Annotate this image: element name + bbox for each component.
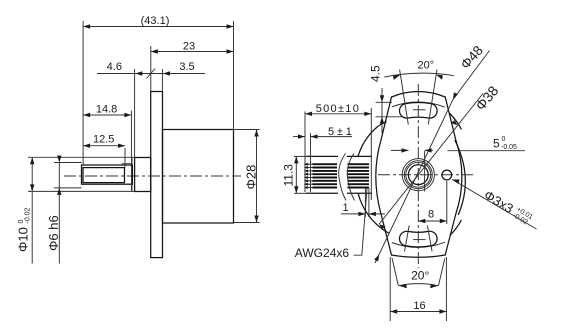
svg-text:-0.02: -0.02 — [25, 207, 32, 223]
phi28 motor can arc (right) — [455, 140, 466, 215]
concentric circles: boss, bearing rings, shaft — [402, 159, 434, 191]
svg-text:8: 8 — [428, 208, 434, 220]
phi3x3 leader — [452, 180, 536, 230]
dim (43.1) — [82, 21, 84, 165]
dim 500+-10 — [304, 112, 306, 193]
phi38 diameter leader — [379, 94, 483, 225]
svg-text:5: 5 — [493, 137, 500, 151]
centerlines — [417, 84, 419, 268]
dim 12.5 — [124, 148, 126, 167]
shaft (phi6) — [82, 165, 133, 184]
boss (phi10) — [135, 158, 151, 192]
svg-text:Φ28: Φ28 — [244, 165, 259, 190]
dim phi6 h6 — [54, 162, 82, 164]
dim 5+-1 — [310, 133, 312, 192]
flange silhouette — [376, 92, 462, 258]
svg-text:-0.05: -0.05 — [501, 144, 517, 151]
svg-text:500±10: 500±10 — [316, 103, 360, 115]
svg-text:20°: 20° — [411, 269, 429, 283]
boss front face line — [131, 158, 133, 192]
phi38 body circle arcs — [358, 193, 389, 233]
svg-text:Φ10: Φ10 — [16, 227, 31, 252]
bottom slot — [399, 231, 437, 247]
dim 20 deg top — [400, 70, 409, 125]
svg-text:11.3: 11.3 — [282, 164, 296, 187]
wire bundle envelope — [306, 155, 338, 157]
svg-text:12.5: 12.5 — [93, 134, 114, 146]
dim 8 — [446, 181, 448, 224]
slot centre dashes — [413, 109, 426, 111]
top slot (arc obround) — [399, 102, 437, 118]
svg-text:14.8: 14.8 — [96, 103, 117, 115]
dim phi28 — [234, 129, 260, 131]
dim 20 deg bottom — [392, 258, 398, 286]
bottom slot radial extension lines — [405, 226, 410, 252]
dim 5 0/-0.05 (D-flat) — [391, 149, 409, 151]
shaft D-flat chord + extension — [424, 151, 426, 192]
svg-text:4.5: 4.5 — [369, 65, 383, 82]
svg-text:20°: 20° — [417, 59, 434, 71]
dim 4.6 / 3.5 — [134, 69, 136, 158]
svg-text:Φ6 h6: Φ6 h6 — [46, 215, 61, 251]
centerline axis — [64, 175, 241, 177]
svg-text:5±1: 5±1 — [328, 126, 355, 138]
wire thin stripped tips — [306, 164, 313, 187]
wire break S-curves — [339, 154, 346, 201]
dim phi10 — [28, 156, 135, 158]
dim 4.5 (slot width) — [376, 101, 393, 103]
svg-text:0: 0 — [502, 136, 506, 143]
dim 14.8 — [130, 111, 132, 158]
dim 23 — [150, 46, 152, 92]
shaft step at end of flat — [122, 164, 132, 165]
svg-text:23: 23 — [183, 41, 195, 53]
flange bend arc across bottom ear — [392, 242, 445, 247]
motor body rectangle — [163, 130, 234, 224]
dim 1 — [364, 188, 366, 217]
dim 11.3 — [294, 155, 308, 157]
shaft flat (D-cut) — [83, 168, 125, 183]
wire tip end ticks — [304, 163, 309, 189]
svg-text:4.6: 4.6 — [107, 61, 122, 73]
flange plate — [151, 92, 163, 258]
svg-text:AWG24x6: AWG24x6 — [295, 246, 350, 260]
svg-text:1: 1 — [343, 202, 349, 214]
svg-text:16: 16 — [413, 300, 425, 312]
dim 16 bottom — [389, 257, 391, 321]
phi48 diameter leader — [375, 51, 490, 264]
small hole phi3x3 — [442, 170, 452, 180]
svg-text:(43.1): (43.1) — [141, 15, 170, 27]
flange bend arc across top ear — [392, 102, 445, 107]
svg-text:3.5: 3.5 — [179, 61, 194, 73]
wire lines — [313, 164, 370, 187]
